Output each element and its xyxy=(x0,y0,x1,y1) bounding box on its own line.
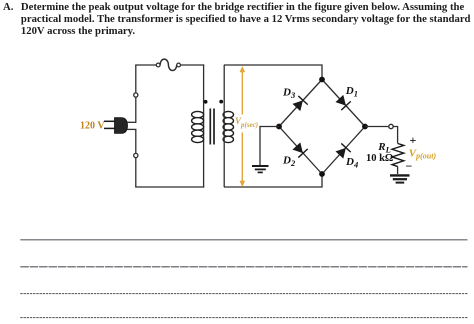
problem statement text xyxy=(3,1,474,38)
node: bridge bottom junction xyxy=(319,171,325,177)
answer line 3 xyxy=(20,293,467,295)
wire: transformer primary vertical conductor xyxy=(203,65,205,187)
outlet terminal circle upper on left wire xyxy=(134,93,138,97)
output terminal open circle xyxy=(389,124,393,128)
wire: primary loop left vertical upper xyxy=(135,65,137,122)
transformer T1 core xyxy=(210,109,214,145)
transformer T1 primary polarity dot xyxy=(204,100,208,104)
wire: primary loop left vertical lower xyxy=(135,129,137,187)
diode D1 xyxy=(335,94,351,110)
wire: secondary vertical conductor xyxy=(223,65,225,187)
transformer T1 primary winding xyxy=(192,111,204,142)
wire: bridge edge left-top xyxy=(279,80,322,127)
transformer T1 secondary winding xyxy=(223,111,233,142)
wire: bridge right node to output terminal xyxy=(365,126,389,128)
diode D4 xyxy=(335,143,351,159)
fuse F1 S-curve element xyxy=(160,59,177,70)
Vp(sec) measurement arrow xyxy=(240,66,246,187)
wire: resistor bottom to ground xyxy=(397,167,399,174)
plug P1 body xyxy=(115,118,128,134)
node: bridge top junction xyxy=(319,77,325,83)
ground symbol left xyxy=(252,166,269,172)
diode D3 xyxy=(292,96,308,112)
resistor RL zigzag xyxy=(392,144,404,167)
wire: secondary top to bridge top xyxy=(224,65,322,78)
wire: terminal to resistor top xyxy=(393,127,397,144)
transformer T1 secondary polarity dot xyxy=(219,100,223,104)
fuse F1 left terminal circle xyxy=(156,63,160,67)
ground symbol right xyxy=(390,175,410,182)
plug P1 lead wires to cord xyxy=(127,122,136,129)
answer line 4 xyxy=(20,317,467,319)
wire: primary loop top left segment xyxy=(135,64,156,66)
outlet terminal circle lower on left wire xyxy=(134,153,138,157)
wire: bridge left node to ground xyxy=(260,127,279,166)
answer line 1 xyxy=(20,239,467,241)
wire: secondary bottom to bridge bottom xyxy=(224,175,322,187)
bridge edge wires xyxy=(279,80,365,175)
wire: bridge edge top-right xyxy=(322,80,365,127)
diode D2 xyxy=(292,142,308,158)
plug P1 prongs xyxy=(104,121,115,128)
answer line 2 xyxy=(20,266,467,268)
node: bridge left junction xyxy=(276,124,282,130)
wire: primary loop top right segment xyxy=(181,64,205,66)
node: bridge right junction xyxy=(362,124,368,130)
wire: primary loop bottom xyxy=(135,186,204,188)
fuse F1 right terminal circle xyxy=(177,63,181,67)
wire: bridge edge bottom-right xyxy=(322,127,365,175)
wire: bridge edge left-bottom xyxy=(279,127,322,175)
